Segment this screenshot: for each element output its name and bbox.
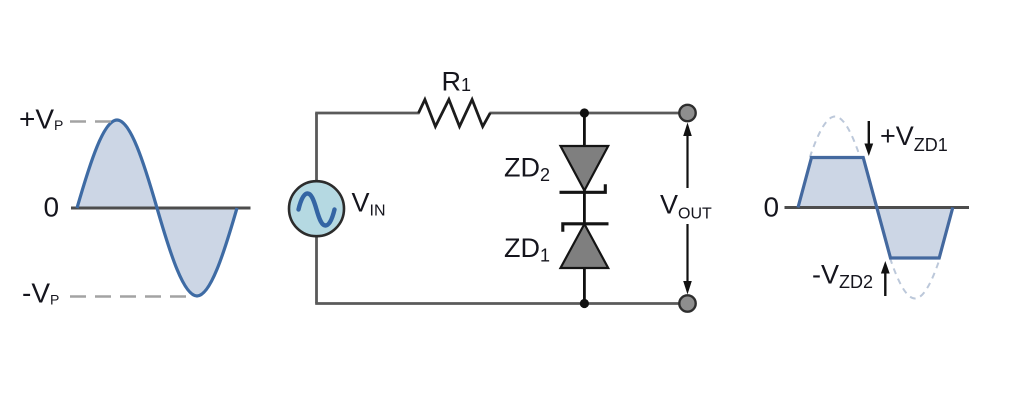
output waveform fill (798, 158, 953, 259)
dashed original sine bottom arc (890, 258, 940, 299)
svg-text:+VZD1: +VZD1 (880, 121, 948, 155)
svg-text:VOUT: VOUT (660, 190, 712, 223)
wire bottom horizontal (315, 302, 687, 305)
svg-text:0: 0 (764, 192, 780, 223)
wire top-left vertical (315, 113, 318, 182)
svg-text:0: 0 (44, 192, 60, 223)
svg-text:R1: R1 (442, 67, 472, 97)
svg-text:VIN: VIN (352, 188, 386, 220)
input waveform fill (77, 120, 237, 296)
resistor R1 (419, 100, 491, 127)
svg-text:ZD1: ZD1 (504, 233, 550, 266)
source sine symbol (299, 194, 335, 226)
zener diode ZD1 (561, 224, 609, 268)
wire top horizontal (resistor to output terminal) (490, 112, 688, 115)
output terminal bottom (679, 295, 695, 311)
arrow down to +Vzd1 level (868, 121, 870, 146)
input waveform axis (71, 207, 251, 210)
wire zener branch top stub (583, 113, 586, 147)
source VIN (289, 181, 344, 236)
wire zener branch bottom stub (583, 267, 586, 304)
dashed level -Vp (70, 295, 190, 298)
wire bottom-left vertical (315, 236, 318, 304)
svg-text:+VP: +VP (19, 104, 63, 135)
ZD1 cathode bar with zener hook (563, 224, 609, 232)
ZD2 cathode bar with zener hook (560, 184, 606, 192)
input sine curve (77, 120, 237, 296)
output terminal top (679, 105, 695, 121)
zener diode ZD2 (561, 146, 609, 191)
Vout arrowhead up (683, 123, 692, 137)
svg-text:-VZD2: -VZD2 (812, 260, 873, 293)
clipped output wave (798, 158, 953, 259)
dashed level +Vp (70, 120, 112, 123)
Vout arrow line upper (686, 133, 688, 188)
node top junction (580, 108, 589, 117)
wire between zeners (583, 190, 586, 225)
output waveform axis (785, 206, 970, 209)
svg-text:-VP: -VP (22, 278, 59, 309)
svg-text:ZD2: ZD2 (504, 153, 550, 186)
Vout arrowhead down (683, 281, 692, 295)
arrow up to -Vzd2 level (884, 271, 886, 296)
dashed original sine top arc (810, 117, 860, 158)
wire top horizontal (source to resistor) (315, 112, 419, 115)
Vout arrow line lower (686, 224, 688, 284)
node bottom junction (580, 299, 589, 308)
